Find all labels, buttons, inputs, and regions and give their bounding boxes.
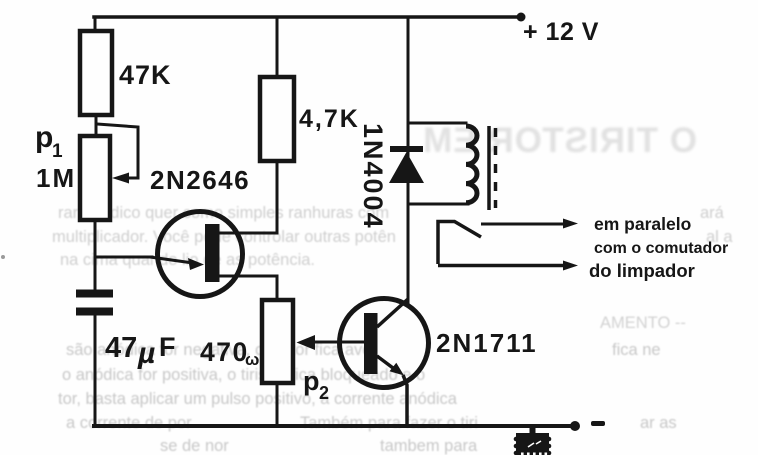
wire relay coil top lead (408, 122, 466, 125)
diode D1 triangle (389, 152, 424, 183)
transistor Q1 base bar (205, 224, 220, 282)
faint bleed-through paragraph upper (52, 204, 733, 269)
stray scan dot left edge (1, 255, 5, 259)
relay contact lower lead with arrow (438, 264, 566, 268)
wire P2 bottom to ground rail (276, 383, 279, 426)
svg-text:tor, basta aplicar um pulso po: tor, basta aplicar um pulso positivo, a … (58, 390, 458, 408)
svg-text:AMENTO --: AMENTO -- (600, 314, 686, 332)
svg-text:47: 47 (105, 332, 137, 364)
transistor Q1 2N2646 (UJT) body circle (158, 212, 243, 297)
node ground-rail end dot (570, 421, 580, 431)
svg-text:ar as: ar as (640, 414, 677, 432)
wire Q1 B1 lead to P2 top (217, 276, 277, 300)
transistor Q2 emitter lead with arrowhead (377, 356, 393, 368)
svg-text:Também para fazer o tiri: Também para fazer o tiri (300, 414, 478, 432)
transistor Q2 base lead (308, 341, 364, 344)
resistor R1 47K (80, 31, 112, 115)
svg-text:com o comutador: com o comutador (594, 240, 728, 257)
potentiometer P1 wiper arrowhead (112, 173, 129, 184)
potentiometer P2 body 470 (262, 300, 293, 383)
svg-text:1: 1 (52, 141, 63, 162)
svg-text:tambem para: tambem para (380, 437, 478, 455)
svg-text:fica ne: fica ne (612, 341, 661, 359)
svg-text:ω: ω (245, 350, 259, 369)
wire diode/relay branch from rail down to Q2 collector (407, 17, 410, 302)
svg-text:a corrente de por: a corrente de por (66, 414, 192, 432)
svg-text:470: 470 (200, 337, 249, 367)
svg-text:2N1711: 2N1711 (436, 328, 538, 358)
node +12V terminal dot (517, 13, 526, 22)
potentiometer P2 wiper arrowhead (297, 335, 316, 350)
capacitor C1 top plate (76, 290, 113, 298)
transistor Q2 2N1711 body circle (340, 299, 429, 388)
svg-text:1N4004: 1N4004 (358, 123, 388, 230)
svg-text:2N2646: 2N2646 (150, 165, 250, 195)
wire R1 bottom to P1 top (95, 114, 98, 136)
relay K1 core solid line (487, 126, 491, 210)
transistor Q2 base bar (364, 313, 378, 374)
svg-text:na cima quando lio de as potên: na cima quando lio de as potência. (60, 251, 315, 269)
transistor Q2 collector lead (377, 299, 408, 327)
relay contact switch arm (438, 222, 481, 265)
svg-text:se de nor: se de nor (160, 437, 229, 455)
wire bottom ground rail (94, 424, 572, 428)
resistor R2 4.7K (260, 77, 294, 161)
svg-text:µ: µ (137, 337, 155, 370)
svg-text:do limpador: do limpador (589, 260, 695, 281)
svg-text:4,7K: 4,7K (299, 105, 360, 133)
potentiometer P1 body (80, 136, 110, 220)
svg-text:em paralelo: em paralelo (594, 214, 691, 234)
svg-text:47K: 47K (119, 60, 172, 90)
svg-text:O TIRISTOR EM: O TIRISTOR EM (422, 121, 697, 160)
hatched element bottom right body (dense coil blob) (514, 433, 552, 455)
relay K1 core dashed line (494, 128, 498, 208)
wire relay coil bottom lead (408, 203, 468, 206)
wire emitter branch of Q1 (95, 256, 152, 259)
svg-text:multiplicador. Você pode contr: multiplicador. Você pode controlar outra… (52, 228, 396, 246)
svg-text:p: p (303, 366, 320, 396)
wire Q1 B2 lead to 4.7K bottom (218, 161, 277, 233)
transistor Q1 emitter lead with arrowhead (150, 257, 193, 263)
relay contact upper lead with arrow (481, 223, 566, 226)
wire left rail top (rail to R1) (94, 17, 97, 31)
svg-text:ará: ará (700, 204, 725, 222)
wire top supply rail (94, 15, 521, 19)
svg-text:2: 2 (319, 383, 329, 403)
wire P1 bottom down to capacitor (94, 219, 97, 290)
hatched element bottom right stub (530, 426, 536, 434)
diode D1 1N4004 cathode bar (390, 146, 423, 152)
svg-text:+ 12 V: + 12 V (523, 18, 599, 46)
wire P1 wiper tap: junction right then down to wiper arrow (97, 124, 138, 178)
label minus sign (591, 421, 605, 426)
relay K1 coil (466, 126, 477, 203)
capacitor C1 bottom plate (76, 308, 113, 316)
faint bleed-through paragraph lower (58, 314, 686, 455)
wire 4.7K top lead (276, 17, 279, 78)
wire capacitor bottom to ground rail (94, 309, 97, 426)
svg-text:1M: 1M (36, 163, 76, 193)
svg-text:p: p (35, 121, 53, 154)
faint bleed-through headline (mirrored) (422, 121, 697, 160)
svg-text:F: F (159, 332, 176, 362)
